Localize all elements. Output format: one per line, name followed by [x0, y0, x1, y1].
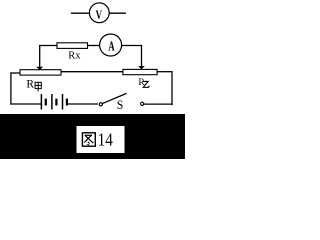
svg-text:S: S — [117, 97, 124, 112]
svg-text:A: A — [108, 38, 115, 53]
svg-text:14: 14 — [98, 130, 113, 150]
svg-text:V: V — [96, 8, 102, 22]
svg-text:R: R — [26, 78, 34, 90]
svg-text:Rx: Rx — [68, 50, 81, 61]
